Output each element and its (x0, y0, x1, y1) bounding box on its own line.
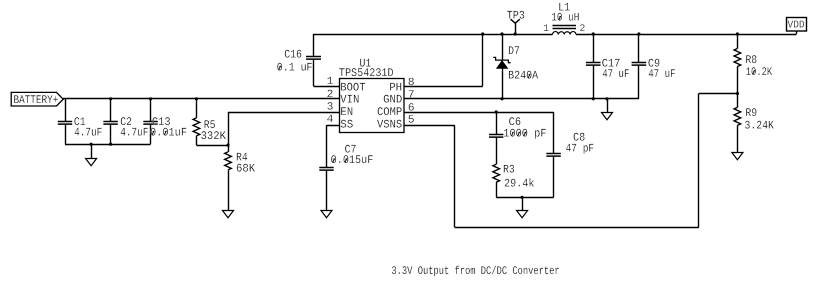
svg-text:5: 5 (408, 115, 415, 127)
svg-text:VDD: VDD (788, 20, 805, 32)
svg-text:GND: GND (383, 94, 402, 107)
svg-text:VSNS: VSNS (377, 118, 402, 131)
svg-text:10.2K: 10.2K (746, 66, 772, 79)
svg-text:47 pF: 47 pF (566, 142, 595, 155)
svg-text:B240A: B240A (508, 70, 538, 83)
svg-text:EN: EN (340, 106, 353, 119)
svg-text:2: 2 (327, 89, 334, 101)
svg-text:R3: R3 (503, 163, 515, 176)
svg-text:2: 2 (579, 24, 585, 35)
svg-text:TPS54231D: TPS54231D (339, 67, 394, 80)
svg-text:1: 1 (327, 76, 334, 88)
svg-text:332K: 332K (201, 130, 226, 143)
svg-text:PH: PH (389, 82, 402, 95)
svg-text:SS: SS (340, 118, 353, 131)
svg-text:D7: D7 (508, 45, 520, 58)
svg-text:47 uF: 47 uF (602, 68, 629, 81)
svg-text:BATTERY+: BATTERY+ (14, 94, 59, 107)
svg-text:6: 6 (408, 102, 415, 114)
svg-text:0.015uF: 0.015uF (331, 154, 374, 167)
svg-text:TP3: TP3 (507, 9, 525, 22)
svg-text:68K: 68K (236, 163, 255, 176)
svg-text:3: 3 (327, 101, 334, 113)
svg-text:BOOT: BOOT (340, 82, 365, 95)
svg-text:47 uF: 47 uF (648, 68, 675, 81)
svg-text:29.4k: 29.4k (504, 177, 534, 190)
svg-text:3.24K: 3.24K (745, 120, 774, 133)
svg-text:COMP: COMP (377, 106, 402, 119)
svg-text:C16: C16 (284, 48, 302, 61)
svg-text:R9: R9 (745, 107, 757, 120)
svg-text:VIN: VIN (340, 94, 359, 107)
svg-text:4.7uF: 4.7uF (74, 127, 102, 140)
svg-text:3.3V Output from DC/DC Convert: 3.3V Output from DC/DC Converter (391, 265, 559, 278)
svg-text:8: 8 (408, 77, 415, 89)
svg-text:1: 1 (543, 24, 549, 35)
svg-text:0.1 uF: 0.1 uF (277, 61, 313, 74)
svg-text:7: 7 (408, 89, 415, 101)
svg-text:10 uH: 10 uH (551, 12, 579, 25)
svg-text:4: 4 (327, 114, 334, 126)
svg-text:0.01uF: 0.01uF (150, 127, 187, 140)
svg-text:4.7uF: 4.7uF (120, 127, 148, 140)
